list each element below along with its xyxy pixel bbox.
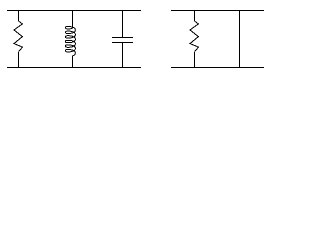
resistor R1 zigzag body bbox=[14, 21, 22, 52]
wire: right circuit shorting branch bbox=[239, 11, 241, 68]
wire: resistor R1 bottom lead bbox=[18, 52, 20, 68]
wire: left circuit bottom rail bbox=[7, 67, 141, 69]
wire: left circuit top rail bbox=[7, 10, 141, 12]
wire: inductor L1 bottom lead bbox=[72, 56, 74, 68]
wire: capacitor C1 top lead bbox=[122, 11, 124, 38]
resistor R2 zigzag body bbox=[190, 21, 198, 52]
wire: resistor R2 top lead bbox=[194, 11, 196, 22]
wire: resistor R2 bottom lead bbox=[194, 52, 196, 68]
wire: right circuit top rail bbox=[171, 10, 264, 12]
capacitor C1 top plate bbox=[112, 37, 133, 39]
wire: right circuit bottom rail bbox=[171, 67, 264, 69]
inductor L1 coil body bbox=[66, 26, 76, 55]
wire: resistor R1 top lead bbox=[18, 11, 20, 22]
capacitor C1 bottom plate bbox=[112, 42, 133, 44]
wire: capacitor C1 bottom lead bbox=[122, 43, 124, 68]
wire: inductor L1 top lead bbox=[72, 11, 74, 29]
